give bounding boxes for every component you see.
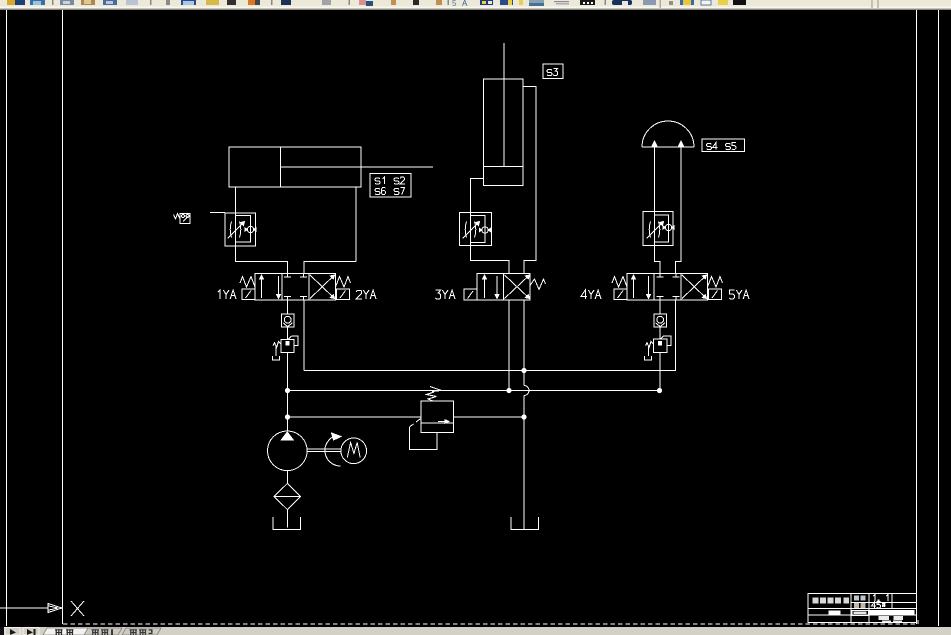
value 1:1	[873, 595, 888, 601]
frame outer right line	[938, 10, 940, 626]
valve V1 right solenoid	[337, 289, 350, 300]
valve V3 right position crossed arrows	[682, 275, 707, 299]
relief line to tank (right)	[454, 416, 525, 418]
white bar	[870, 610, 915, 614]
UCS X label	[71, 601, 84, 616]
valve V3 right spring	[708, 277, 723, 288]
check valve CV1	[282, 314, 295, 327]
wire CYL2 left port	[471, 179, 484, 213]
wire dome left leg	[654, 147, 656, 212]
model tab (active)	[43, 628, 88, 635]
cylinder CYL2 lower chamber	[484, 167, 524, 186]
toolbar background	[0, 0, 951, 10]
throttle valve FC1	[225, 213, 256, 246]
wire V1 P-port down	[287, 300, 289, 314]
UCS icon X axis	[0, 604, 62, 613]
pilot sensor box left of FC1	[174, 213, 226, 224]
wire CV2 to PRV2	[659, 327, 661, 339]
wire V1 T-port down	[303, 300, 305, 371]
cylinder CYL1 body (horizontal, top-left)	[229, 147, 361, 187]
valve V3 left solenoid	[614, 289, 627, 300]
cylinder CYL2 rod up	[503, 43, 505, 167]
title block	[808, 594, 917, 623]
wire CV1 to PRV1	[287, 327, 289, 340]
title text 液压系统图	[813, 598, 850, 604]
wire V3 P-port down	[659, 300, 661, 314]
label 比例	[854, 596, 866, 601]
valve V1 left spring	[240, 277, 255, 288]
tab nav button 2	[23, 628, 39, 635]
throttle valve FC3	[643, 212, 674, 246]
valve V1 right position crossed arrows	[310, 275, 335, 299]
wire CYL2 right side down	[523, 87, 536, 274]
toolbar icon fragments	[7, 0, 879, 8]
tab nav button 1	[5, 628, 20, 635]
label box s4 s5	[702, 139, 745, 152]
valve V1 right spring	[336, 277, 351, 288]
wire V2 T-port down to tank with hop	[524, 300, 529, 529]
check valve CV2	[654, 314, 667, 327]
cylinder CYL1 piston	[280, 147, 282, 187]
valve V3 left spring	[612, 277, 627, 288]
wire PRV2 down to pressure line	[659, 353, 661, 391]
valve V3 right solenoid	[709, 289, 722, 300]
tank T2 (bottom right)	[511, 517, 539, 530]
svg-text:A: A	[462, 0, 468, 8]
tank T1 (under pump)	[273, 517, 301, 530]
valve V1 left position flow arrows	[260, 275, 281, 299]
filter F1	[274, 471, 301, 528]
valve V1 center position blocked ports	[284, 274, 307, 301]
boxed drawing number	[852, 610, 869, 615]
bottom row marks	[879, 616, 904, 622]
relief valve RV1	[410, 387, 454, 450]
wire FC3 to valve V3	[655, 246, 661, 274]
label box s1 s2 / s6 s7	[370, 174, 411, 198]
valve V3 center position blocked ports	[657, 274, 680, 301]
pump P1	[268, 431, 342, 471]
wire V2 P-port down	[508, 300, 510, 391]
wire CYL1 right to valve V1	[304, 262, 356, 274]
frame outer left line	[6, 10, 8, 626]
frame inner left line	[62, 10, 64, 624]
label 5YA	[729, 290, 749, 299]
rotation arrow arc	[325, 433, 341, 466]
wire FC2 to valve V2	[471, 246, 510, 274]
motor M1	[341, 438, 367, 464]
pressure reducing valve PRV1	[273, 336, 299, 360]
press dome (top right)	[642, 121, 694, 147]
wire dome right leg	[676, 147, 682, 274]
valve V2 left position flow arrows	[483, 275, 500, 299]
small white chip left	[828, 611, 840, 615]
cylinder CYL2 body (vertical, middle)	[484, 79, 524, 167]
throttle valve FC2	[460, 213, 492, 246]
label 材料	[854, 603, 866, 608]
valve V2 solenoid (bottom left)	[464, 289, 477, 300]
wire FC1 to valve V1	[236, 246, 288, 274]
valve V2 right spring	[530, 279, 546, 290]
svg-text:5: 5	[452, 0, 457, 8]
frame bottom dashed limits line	[63, 623, 918, 625]
layout2 tab	[122, 628, 161, 635]
pressure reducing valve PRV2	[645, 336, 672, 360]
drain return line	[304, 300, 676, 371]
valve V2 body (3YA 4/2 solenoid valve)	[477, 274, 530, 301]
tab bar	[0, 627, 951, 635]
valve V1 body (1YA/2YA 4/3 solenoid valve)	[255, 274, 336, 301]
valve V2 right position crossed arrows	[505, 275, 530, 299]
label 2YA	[356, 290, 376, 299]
junction dots	[285, 368, 661, 419]
valve V1 left solenoid	[242, 289, 255, 300]
label box s3	[543, 64, 563, 79]
cylinder CYL1 rod	[281, 166, 434, 168]
label 4YA	[581, 290, 601, 299]
label 1YA	[218, 290, 236, 299]
wire CYL1 right port down	[355, 187, 357, 262]
label 3YA	[435, 290, 455, 299]
relief line to tank (left)	[288, 416, 422, 418]
layout1 tab	[84, 628, 122, 635]
frame inner right line	[916, 10, 918, 624]
valve V3 body (4YA/5YA 4/3 solenoid valve)	[627, 274, 708, 301]
wire CYL1 left port down	[235, 187, 237, 213]
pressure line from pump	[288, 390, 660, 392]
模型 glyph blobs	[55, 629, 74, 635]
value 45#	[872, 602, 886, 608]
wire PRV1 to pump	[287, 353, 289, 432]
valve V3 left position flow arrows	[632, 275, 651, 299]
